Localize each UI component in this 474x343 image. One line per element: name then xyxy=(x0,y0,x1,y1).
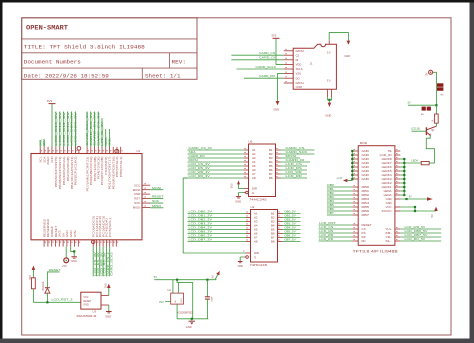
svg-text:DB3_5V: DB3_5V xyxy=(285,223,297,226)
svg-text:LEDK5: LEDK5 xyxy=(382,169,393,173)
svg-text:XL-: XL- xyxy=(385,239,392,243)
wire net MISO xyxy=(150,207,163,209)
buffer U2 74HC245 box xyxy=(251,210,278,263)
svg-text:LEDA: LEDA xyxy=(384,193,392,197)
svg-text:DB5_5V: DB5_5V xyxy=(285,231,297,234)
svg-text:GND: GND xyxy=(83,304,89,307)
wire VCC IOVCC tie xyxy=(400,207,436,211)
svg-text:IOREF: IOREF xyxy=(52,225,54,237)
MCU U1 box xyxy=(31,154,142,240)
wire 3V3 left leg upper xyxy=(32,270,34,278)
svg-text:SCK: SCK xyxy=(152,199,159,203)
svg-text:PD7(AIN1/PCINT23): PD7(AIN1/PCINT23) xyxy=(86,156,89,191)
svg-text:DB5: DB5 xyxy=(327,203,334,207)
wire net LCD_RST_3 xyxy=(33,301,80,303)
wire net LCD_D12_3V xyxy=(59,112,61,148)
svg-text:U5: U5 xyxy=(249,140,253,144)
svg-text:MOSI: MOSI xyxy=(133,188,140,192)
svg-text:LEDK8: LEDK8 xyxy=(382,157,393,161)
wire net LCD_RD at MOD xyxy=(319,240,353,242)
wire net LCD_DB1_3V xyxy=(188,217,246,219)
wire net LCD_DB7_5V xyxy=(400,236,441,238)
svg-text:PB0(ICP1/CLKO): PB0(ICP1/CLKO) xyxy=(76,156,78,185)
svg-text:MOSI: MOSI xyxy=(152,186,161,190)
wire shield to GND xyxy=(329,33,348,41)
wire net CARD_DO_3V xyxy=(90,112,92,148)
wire net DB4_5V xyxy=(283,229,301,231)
svg-text:PD3(INT1/OC2B): PD3(INT1/OC2B) xyxy=(102,156,104,185)
svg-text:SCL: SCL xyxy=(108,137,112,146)
svg-text:GND: GND xyxy=(344,54,350,58)
resistor R3 xyxy=(435,114,439,123)
pin U4 out left xyxy=(165,301,171,303)
wire net CARD_DO xyxy=(188,157,244,159)
svg-text:PB1(OC1A/PCINT1): PB1(OC1A/PCINT1) xyxy=(71,156,74,189)
wire net SCL xyxy=(108,129,110,147)
svg-text:XC6206P332: XC6206P332 xyxy=(177,311,193,315)
svg-text:B8: B8 xyxy=(271,240,275,244)
svg-text:LCD_RD_3V: LCD_RD_3V xyxy=(189,174,210,178)
svg-text:RESET: RESET xyxy=(49,268,61,272)
wire net LCD_CS_3V xyxy=(92,247,94,277)
display connector MOD box xyxy=(358,146,395,246)
jumper pads SJ1 xyxy=(437,83,443,87)
pins U5 right xyxy=(276,149,281,151)
svg-text:PB4(MISO/PCINT4): PB4(MISO/PCINT4) xyxy=(60,156,62,189)
svg-text:DB6_5V: DB6_5V xyxy=(285,235,297,238)
wire net LCD_CS at MOD xyxy=(319,228,353,230)
wire net LCD_DB1_5V xyxy=(327,190,353,192)
wire net LCD_DB6_5V xyxy=(400,232,441,234)
svg-text:Document Numbers: Document Numbers xyxy=(24,58,81,65)
wire net RESET xyxy=(150,198,163,200)
wire net LCD_WR_3V xyxy=(99,247,101,277)
svg-text:PD4(T0/XCK): PD4(T0/XCK) xyxy=(98,156,100,179)
svg-text:22uF: 22uF xyxy=(212,296,214,302)
svg-text:RD: RD xyxy=(362,239,366,243)
svg-text:PB3(MOSI/OC2A): PB3(MOSI/OC2A) xyxy=(63,156,66,185)
svg-text:RESET: RESET xyxy=(152,195,164,199)
wire base net xyxy=(412,130,427,132)
wire net CARD_SCK3 xyxy=(109,247,111,277)
wire net LCD_DB5_3V xyxy=(188,233,246,235)
svg-text:LCD_RD: LCD_RD xyxy=(319,237,334,241)
svg-text:DB7: DB7 xyxy=(362,213,370,217)
svg-text:MAX809-R: MAX809-R xyxy=(77,314,98,318)
svg-text:PB2(SS/OC1B): PB2(SS/OC1B) xyxy=(68,156,70,181)
svg-text:VDD: VDD xyxy=(296,63,302,67)
pin U3 GND xyxy=(101,304,109,306)
svg-text:A8: A8 xyxy=(252,176,256,180)
wire net DB6_5V xyxy=(283,237,301,239)
svg-text:DB2_5V: DB2_5V xyxy=(285,219,297,222)
pin U2 G bubble xyxy=(246,256,249,259)
svg-text:DB1: DB1 xyxy=(362,189,370,193)
svg-text:LEDK3: LEDK3 xyxy=(382,177,393,181)
svg-text:DB5: DB5 xyxy=(362,205,370,209)
svg-text:MISO: MISO xyxy=(152,204,162,208)
pin U5 DIR xyxy=(244,188,249,190)
wire net DB7_5V xyxy=(283,241,301,243)
wire net LCD_RD xyxy=(281,177,308,179)
border right xyxy=(470,3,474,343)
svg-text:PD6(AIN0/OC0A): PD6(AIN0/OC0A) xyxy=(90,156,93,185)
wire net DB5_5V xyxy=(283,233,301,235)
svg-text:PB7(XTAL2): PB7(XTAL2) xyxy=(116,156,119,177)
svg-text:PB6(XTAL1): PB6(XTAL1) xyxy=(120,156,123,177)
wire U2 DIR enable route xyxy=(183,178,245,253)
pins MCU ICSP xyxy=(142,184,150,186)
ground flag MOD left xyxy=(343,179,347,183)
ground at regulator xyxy=(189,320,195,322)
svg-text:REV:: REV: xyxy=(172,58,187,65)
svg-text:RESERVED: RESERVED xyxy=(44,218,46,237)
pins J1 bottom switch xyxy=(327,89,329,97)
wire net CARD_SCLK xyxy=(237,68,284,70)
svg-text:VCC: VCC xyxy=(386,205,392,209)
wire 5V branch xyxy=(408,104,436,106)
svg-text:LCD_DB7_3V: LCD_DB7_3V xyxy=(189,238,213,242)
svg-text:5V: 5V xyxy=(408,102,411,105)
pin ring top-right xyxy=(115,149,119,153)
title block xyxy=(22,18,197,80)
svg-text:GND: GND xyxy=(67,230,69,237)
ground right of J1 xyxy=(347,41,351,45)
svg-text:RESET: RESET xyxy=(56,225,58,237)
svg-text:DB4: DB4 xyxy=(362,201,370,205)
svg-text:LEDA: LEDA xyxy=(411,159,418,163)
border left xyxy=(0,0,3,339)
svg-text:TITLE: TFT Shield 3.8inch ILI: TITLE: TFT Shield 3.8inch ILI9488 xyxy=(24,43,145,50)
svg-text:OPEN-SMART: OPEN-SMART xyxy=(26,25,68,32)
wire U3 VCC to 3V3 xyxy=(108,288,110,296)
wire U4 GND down xyxy=(176,304,178,319)
svg-text:A8: A8 xyxy=(254,240,258,244)
svg-text:RESERVED: RESERVED xyxy=(48,218,50,237)
power 3V3 at U3 xyxy=(107,284,111,288)
wire net LCD_RST at MOD xyxy=(319,224,353,226)
svg-text:+5V: +5V xyxy=(62,264,67,268)
pins U2 right xyxy=(278,213,283,215)
wire net LCD_DB7_3V xyxy=(188,241,246,243)
svg-text:OUT: OUT xyxy=(181,297,183,302)
wire net LCD_D13_3V xyxy=(55,112,57,148)
svg-text:LEDK7: LEDK7 xyxy=(382,161,393,165)
wire rail to U4 pin1 xyxy=(172,280,174,293)
svg-text:GND: GND xyxy=(186,325,192,329)
pins MOD left control xyxy=(352,224,358,226)
svg-text:3V3: 3V3 xyxy=(159,300,164,304)
svg-text:YD-: YD- xyxy=(385,235,392,239)
svg-text:MISO: MISO xyxy=(133,206,141,210)
wire net LCD_DB3_5V xyxy=(327,198,353,200)
wire net LCD_CS xyxy=(281,165,308,167)
svg-text:GND: GND xyxy=(71,230,73,237)
svg-text:SCL: SCL xyxy=(40,156,42,163)
wire net CARD_DO xyxy=(244,77,284,79)
svg-text:DB2: DB2 xyxy=(327,191,334,195)
wire rail jog to output net xyxy=(177,280,193,319)
sd card J1 box xyxy=(293,44,336,89)
svg-text:DO: DO xyxy=(296,76,300,80)
ground under J1 xyxy=(276,101,280,105)
svg-text:DB1: DB1 xyxy=(327,187,334,191)
svg-text:GND: GND xyxy=(235,200,241,204)
wire LEDK bus xyxy=(400,158,404,160)
svg-text:3V3: 3V3 xyxy=(47,99,53,103)
pin U3 VCC xyxy=(101,295,109,297)
svg-text:DB7: DB7 xyxy=(327,211,334,215)
wire net LCD_DB2_5V xyxy=(327,194,353,196)
svg-text:LEDK2: LEDK2 xyxy=(382,181,393,185)
svg-text:5V: 5V xyxy=(409,196,412,199)
wire net CARD_CS_3V xyxy=(97,112,99,148)
svg-text:DB2: DB2 xyxy=(362,193,370,197)
wire net MOSI xyxy=(188,161,244,163)
svg-text:DB3: DB3 xyxy=(327,195,334,199)
resistor R2 xyxy=(421,162,429,165)
svg-text:DATA2: DATA2 xyxy=(296,49,305,53)
svg-text:RESET: RESET xyxy=(362,223,372,227)
wire to +5V pad xyxy=(65,247,67,258)
svg-text:CARD_DI: CARD_DI xyxy=(259,56,275,60)
svg-text:VIN: VIN xyxy=(75,230,77,237)
svg-text:GND: GND xyxy=(362,177,370,181)
svg-text:LCD_BL: LCD_BL xyxy=(411,127,421,130)
wire net LCD_WR_3V xyxy=(188,173,244,175)
svg-text:IOVCC: IOVCC xyxy=(382,209,392,213)
svg-text:PD2(INT0): PD2(INT0) xyxy=(106,156,108,175)
wire net LCD_DB6_3V xyxy=(188,237,246,239)
testpoint 5V top-right xyxy=(429,70,433,74)
svg-text:DB4_5V: DB4_5V xyxy=(285,227,297,230)
svg-text:PC4(SDA): PC4(SDA) xyxy=(106,218,109,238)
pins MOD touch xyxy=(395,228,400,230)
wire GND bus left xyxy=(351,151,353,181)
svg-text:AREF: AREF xyxy=(47,156,50,165)
wire to GND bottom-left xyxy=(71,247,75,257)
svg-text:LCD_RD_5V: LCD_RD_5V xyxy=(405,237,426,241)
border bottom xyxy=(0,339,474,343)
wire net CARD_SCK_3V xyxy=(86,112,88,148)
svg-text:SDA: SDA xyxy=(43,156,46,163)
power 3V3 at U5 DIR xyxy=(237,180,240,184)
svg-text:LEDK1: LEDK1 xyxy=(382,185,393,189)
pins U2 left xyxy=(246,213,251,215)
wire LEDK to resistor R2 xyxy=(404,162,421,164)
wire net LCD_DB4_5V xyxy=(327,202,353,204)
svg-text:PD5(T1/OC0B): PD5(T1/OC0B) xyxy=(95,156,97,181)
wire net SDA short xyxy=(43,140,45,147)
svg-text:DB0_5V: DB0_5V xyxy=(285,211,297,214)
wire net LCD_DB9_3V xyxy=(71,112,73,148)
svg-text:DB1_5V: DB1_5V xyxy=(285,215,297,218)
svg-text:RST: RST xyxy=(134,197,140,201)
svg-text:GND: GND xyxy=(362,153,370,157)
pins U5 left xyxy=(244,149,249,151)
wire net LCD_D10_3V xyxy=(67,112,69,148)
ground at U5 G xyxy=(236,196,241,198)
wire bottom gnd rail xyxy=(177,318,208,320)
wire net LCD_DB3_3V xyxy=(188,225,246,227)
svg-text:RS: RS xyxy=(362,231,366,235)
pin ring bottom-right xyxy=(91,240,95,244)
svg-text:DATA1: DATA1 xyxy=(296,81,305,85)
svg-text:PB5(SCK/PCINT5): PB5(SCK/PCINT5) xyxy=(56,156,58,187)
border top xyxy=(0,0,474,3)
svg-text:GND: GND xyxy=(273,108,279,112)
svg-text:CARD_SCK3: CARD_SCK3 xyxy=(109,252,113,276)
pins MOD left GND xyxy=(352,150,358,152)
svg-text:LEDA: LEDA xyxy=(384,189,392,193)
svg-text:LCD_RD: LCD_RD xyxy=(286,174,303,178)
wire net SCL short xyxy=(39,140,41,147)
svg-text:PD0(RXD/PCINT16): PD0(RXD/PCINT16) xyxy=(113,156,115,189)
svg-text:GND: GND xyxy=(386,197,392,201)
svg-text:CS: CS xyxy=(296,53,300,57)
svg-text:74HC245: 74HC245 xyxy=(249,198,267,202)
ground under J1 switch xyxy=(328,103,332,107)
power 5V arrow at rail end xyxy=(214,270,222,280)
svg-text:DB0: DB0 xyxy=(362,185,370,189)
svg-text:DB6: DB6 xyxy=(362,209,370,213)
diode D1 BAS316 xyxy=(45,287,50,289)
wire net LCD_CS_3V xyxy=(188,165,244,167)
power 5V arrow at MOD xyxy=(434,207,438,211)
wire net CARD_CS xyxy=(281,149,315,151)
svg-text:SDA: SDA xyxy=(42,138,46,146)
pins MCU top-right header xyxy=(86,147,88,154)
jumper pads SJ2 xyxy=(422,107,426,111)
svg-text:5V: 5V xyxy=(154,275,158,279)
svg-text:GND: GND xyxy=(362,173,370,177)
wire net CARD_SCK xyxy=(281,153,315,155)
wire net LCD_WR_5V xyxy=(400,228,441,230)
svg-text:GND: GND xyxy=(52,156,54,163)
svg-text:Sheet: 1/1: Sheet: 1/1 xyxy=(145,72,181,79)
svg-text:5V: 5V xyxy=(424,72,428,75)
svg-text:GND: GND xyxy=(362,149,370,153)
svg-text:PC2(ADC2): PC2(ADC2) xyxy=(99,215,102,237)
svg-text:U2: U2 xyxy=(251,205,255,209)
svg-text:3V3: 3V3 xyxy=(103,283,107,288)
svg-text:TFT3.8 4/P ILI9488: TFT3.8 4/P ILI9488 xyxy=(353,250,398,254)
svg-text:YU+: YU+ xyxy=(385,227,392,231)
svg-text:PC5(SCL): PC5(SCL) xyxy=(110,218,112,238)
wire U5 G to GND xyxy=(239,193,244,197)
wire switch to GND xyxy=(328,97,332,100)
svg-text:3V3: 3V3 xyxy=(60,229,62,237)
wire net LCD_DB5_5V xyxy=(327,206,353,208)
wire net CARD_CS_3V xyxy=(188,149,244,151)
svg-text:BAS316: BAS316 xyxy=(42,281,45,290)
wire net DB3_5V xyxy=(283,225,301,227)
ground GND under MCU xyxy=(71,256,77,258)
ground at U2 G xyxy=(238,261,243,263)
wire net LCD_BL_3V xyxy=(101,118,103,147)
svg-text:GND: GND xyxy=(362,157,370,161)
svg-text:DB0: DB0 xyxy=(327,183,334,187)
svg-text:LCD_ID: LCD_ID xyxy=(380,153,392,157)
wire net LCD_RS xyxy=(281,169,308,171)
svg-text:GND: GND xyxy=(362,161,370,165)
svg-text:GND: GND xyxy=(386,201,392,205)
wire net MOSI xyxy=(281,157,301,159)
svg-text:GND: GND xyxy=(134,192,140,196)
pins MOD right xyxy=(395,150,400,152)
svg-text:B8: B8 xyxy=(269,176,273,180)
pins MOD VCC IOVCC xyxy=(395,206,400,208)
svg-text:PC1(ADC1): PC1(ADC1) xyxy=(96,215,99,237)
wire net LCD_WR at MOD xyxy=(319,236,353,238)
svg-text:TE: TE xyxy=(388,149,392,153)
pins MCU top-left header xyxy=(39,147,41,154)
wire net LCD_DB7_5V xyxy=(327,214,353,216)
svg-text:PC0(ADC0): PC0(ADC0) xyxy=(93,215,96,237)
wire net MOSI xyxy=(150,189,163,191)
wire net LCD_DB8_3V xyxy=(75,112,77,148)
svg-text:WR: WR xyxy=(362,235,366,239)
pins MCU bottom-right header xyxy=(92,240,94,247)
svg-text:MOD: MOD xyxy=(360,141,368,145)
transistor Q1 xyxy=(425,127,427,135)
svg-text:DB6: DB6 xyxy=(327,207,334,211)
wire emitter down xyxy=(426,136,434,163)
svg-text:SCLK: SCLK xyxy=(296,67,303,71)
reset supervisor U3 MAX809 box xyxy=(81,292,101,309)
wire net SCK xyxy=(150,202,163,204)
wire U3 GND down xyxy=(108,305,110,311)
svg-text:U1: U1 xyxy=(137,149,141,153)
svg-text:COM: COM xyxy=(296,85,303,89)
svg-text:RESET: RESET xyxy=(83,300,92,303)
wire net LCD_RS at MOD xyxy=(319,232,353,234)
wire 5V feed xyxy=(433,72,437,105)
wire net LCD_DB0_5V xyxy=(327,186,353,188)
wire R3 to collector xyxy=(435,123,437,126)
svg-text:DB4: DB4 xyxy=(327,199,334,203)
wire net LCD_RD_3V xyxy=(102,247,104,277)
svg-text:3V3: 3V3 xyxy=(271,33,276,37)
wire net LCD_DB4_3V xyxy=(188,229,246,231)
svg-text:GND: GND xyxy=(71,260,77,263)
wire net LCD_RD_3V xyxy=(183,177,243,179)
buffer U5 74HC245 box xyxy=(249,144,276,197)
wire 3V3 left leg lower xyxy=(32,289,34,303)
wire net CARD_CS xyxy=(231,54,283,56)
wire net LCD_DB6_5V xyxy=(327,210,353,212)
svg-text:CARD_DO: CARD_DO xyxy=(259,74,276,78)
wire net CARD_CS_3 xyxy=(105,247,107,277)
pin U2 DIR xyxy=(246,252,251,254)
wire net DB1_5V xyxy=(283,217,301,219)
svg-text:5V: 5V xyxy=(63,232,65,237)
wire net LCD_RD_5V xyxy=(400,240,441,242)
svg-text:VCC: VCC xyxy=(134,183,140,187)
svg-text:VCC: VCC xyxy=(83,296,88,299)
ground at U3 xyxy=(106,311,112,313)
svg-text:GND: GND xyxy=(238,265,244,268)
svg-text:XR-: XR- xyxy=(385,231,392,235)
svg-text:GND: GND xyxy=(337,177,343,180)
svg-text:DB7_5V: DB7_5V xyxy=(285,239,297,242)
wire net LCD_DB0_3V xyxy=(188,213,246,215)
wire net LCD_D11_3V xyxy=(63,112,65,148)
wire net SDA xyxy=(188,153,244,155)
svg-text:DB3: DB3 xyxy=(362,197,370,201)
svg-text:VSS: VSS xyxy=(296,72,302,76)
svg-text:Date: 2022/9/26 18:52:59: Date: 2022/9/26 18:52:59 xyxy=(24,72,109,79)
